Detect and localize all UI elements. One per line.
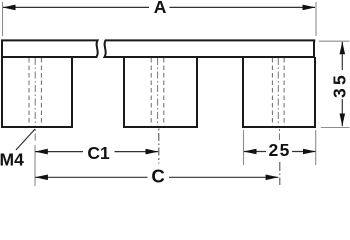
extension line bottom for dimension 35 bbox=[321, 127, 350, 129]
extension line left for C1 and C bbox=[34, 145, 36, 186]
post 3 centerline bbox=[277, 58, 279, 126]
svg-text:35: 35 bbox=[329, 72, 349, 98]
dimension line C1 right segment bbox=[115, 151, 159, 153]
dimension line C left segment bbox=[35, 176, 147, 178]
post 2 outline bbox=[124, 57, 197, 127]
post 3 centerline extension below bbox=[279, 129, 281, 140]
post 1 hidden thread line left bbox=[28, 58, 30, 126]
bar segment 2 (right, with break) bbox=[105, 40, 316, 57]
extension line left for dimension 25 bbox=[243, 130, 245, 165]
arrowhead C right bbox=[266, 175, 279, 181]
arrowhead 25 right bbox=[303, 149, 316, 155]
dimension line A right segment bbox=[170, 6, 316, 8]
extension line right of dimension A bbox=[315, 2, 317, 36]
post 2 centerline bbox=[157, 58, 159, 126]
post 1 outline bbox=[2, 57, 72, 127]
arrowhead 35 down bbox=[340, 114, 346, 127]
extension line right for dimension 25 bbox=[315, 130, 317, 165]
post 2 hidden thread line left bbox=[150, 58, 152, 126]
bar segment 1 (left, with break) bbox=[2, 40, 98, 57]
arrowhead C1 right bbox=[146, 149, 159, 155]
post 2 hidden thread line right bbox=[163, 58, 165, 126]
dimension line A left segment bbox=[3, 6, 149, 8]
dimension line C right segment bbox=[169, 176, 278, 178]
arrowhead C1 left bbox=[35, 149, 48, 155]
post 1 centerline bbox=[34, 58, 36, 126]
arrowhead 35 up bbox=[340, 42, 346, 55]
leader line for M4 bbox=[16, 129, 35, 150]
dimension line 25 right segment bbox=[292, 151, 316, 153]
post 3 hidden thread line right bbox=[283, 58, 285, 126]
svg-text:A: A bbox=[154, 0, 167, 17]
dimension line C1 left segment bbox=[35, 151, 83, 153]
post 3 centerline extension lower (below 25 label) bbox=[279, 162, 281, 185]
post 2 centerline extension below bbox=[158, 129, 160, 164]
dimension line 35 upper segment bbox=[341, 42, 343, 70]
arrowhead A left bbox=[3, 5, 16, 11]
svg-text:M4: M4 bbox=[0, 150, 24, 170]
post 1 hidden thread line right bbox=[40, 58, 42, 126]
arrowhead C left bbox=[35, 175, 48, 181]
svg-text:C: C bbox=[151, 165, 164, 186]
svg-text:C1: C1 bbox=[87, 143, 110, 163]
arrowhead A right bbox=[303, 5, 316, 11]
dimension line 35 lower segment bbox=[341, 99, 343, 126]
post 3 hidden thread line left bbox=[271, 58, 273, 126]
post 3 outline bbox=[243, 57, 315, 127]
extension line left of dimension A bbox=[2, 2, 4, 36]
arrowhead 25 left bbox=[244, 149, 257, 155]
post 1 centerline extension below bbox=[34, 129, 36, 141]
extension line top for dimension 35 bbox=[319, 40, 350, 42]
svg-text:25: 25 bbox=[268, 140, 290, 160]
dimension line 25 left segment bbox=[244, 151, 266, 153]
